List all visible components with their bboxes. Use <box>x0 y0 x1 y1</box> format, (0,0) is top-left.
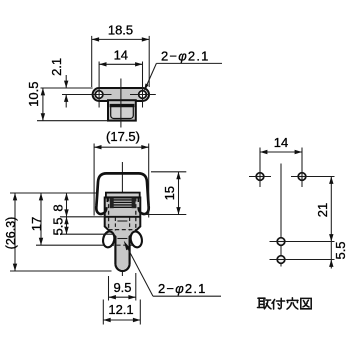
hole right (top view) <box>139 91 147 99</box>
bail wire loop <box>96 173 148 214</box>
spring cap <box>106 193 140 198</box>
left hook <box>102 230 116 248</box>
tongue outline restroke <box>115 237 129 272</box>
tab slot recess <box>111 105 134 119</box>
crosshair left hole <box>62 94 112 96</box>
crosshair right hole <box>130 94 156 96</box>
dimension 2.1 (top view left) <box>41 87 93 89</box>
dimension 14 (mount) <box>260 151 302 153</box>
hole tick lower (front view) <box>117 238 127 240</box>
title 取付穴図 (kanji drawn as strokes) <box>258 298 312 309</box>
reference line top (front left) <box>10 192 96 194</box>
coil block right <box>132 198 136 208</box>
svg-text:21: 21 <box>315 203 330 217</box>
coil block left <box>110 198 114 208</box>
tab slot dark band <box>110 104 135 107</box>
svg-text:10.5: 10.5 <box>26 82 41 107</box>
dimension 9.5 <box>108 276 110 301</box>
svg-text:5.5: 5.5 <box>51 217 66 235</box>
strike plate tab <box>108 100 136 120</box>
hidden plate left (dashed) <box>108 198 110 245</box>
dimension 5.5 (front left) <box>66 217 68 234</box>
svg-text:2−φ2.1: 2−φ2.1 <box>161 49 210 64</box>
mount hole top-left <box>256 173 264 181</box>
dimension (17.5) <box>93 144 95 216</box>
svg-text:2−φ2.1: 2−φ2.1 <box>158 281 207 296</box>
svg-text:12.1: 12.1 <box>108 302 133 317</box>
centerline vertical (mount) <box>280 164 282 267</box>
dimension 8 <box>66 193 68 217</box>
dimension 14 (top view) <box>99 63 142 65</box>
reference line bottom (26.3) <box>10 270 112 272</box>
dimension 18.5 <box>91 36 93 87</box>
hole tick upper (front view) <box>117 220 127 222</box>
svg-text:14: 14 <box>114 48 128 63</box>
kanji 図 <box>301 298 311 308</box>
kanji 付 <box>272 298 285 309</box>
svg-text:(17.5): (17.5) <box>106 129 140 144</box>
dimension 10.5 (top view left) <box>37 120 108 122</box>
svg-text:9.5: 9.5 <box>113 280 131 295</box>
cap end wall right <box>137 197 139 202</box>
dimension 15 (front right) <box>151 171 186 173</box>
mount hole top-right <box>298 173 306 181</box>
kanji 取 <box>258 298 272 309</box>
hidden tongue edge left (dashed) <box>114 218 116 231</box>
dimension 21 (mount) <box>330 177 332 242</box>
svg-text:2.1: 2.1 <box>49 58 64 76</box>
latch body <box>105 198 141 272</box>
svg-text:5.5: 5.5 <box>333 241 348 259</box>
kanji 穴 <box>287 298 298 309</box>
dimension (26.3) <box>14 193 16 271</box>
svg-text:15: 15 <box>162 186 177 200</box>
strike plate bar <box>93 88 149 101</box>
centerline vertical (top view) <box>120 79 122 128</box>
spring coils <box>111 199 135 201</box>
reference line at 17 <box>36 244 104 246</box>
hidden plate bottom (dashed) <box>110 244 136 246</box>
right hook <box>129 230 143 248</box>
dimension 12.1 <box>102 300 104 325</box>
dimension 17 <box>40 193 42 245</box>
svg-text:8: 8 <box>51 204 66 211</box>
centerline vertical (front view) <box>121 162 123 276</box>
mount hole bottom <box>277 256 285 264</box>
svg-text:(26.3): (26.3) <box>4 217 18 250</box>
hidden line mid (dashed) <box>109 229 136 231</box>
reference line at 8 <box>60 216 105 218</box>
svg-text:18.5: 18.5 <box>108 23 133 38</box>
dimension 5.5 (mount) <box>330 242 332 269</box>
hidden plate right (dashed) <box>135 198 137 245</box>
cap end wall left <box>106 197 108 202</box>
flange bottom edge <box>105 216 141 218</box>
mount hole mid <box>277 238 285 246</box>
svg-text:17: 17 <box>29 217 44 231</box>
hidden tongue edge right (dashed) <box>129 218 131 231</box>
reference line at 5.5 <box>60 233 113 235</box>
hole left (top view) <box>95 91 103 99</box>
svg-text:14: 14 <box>274 135 288 150</box>
